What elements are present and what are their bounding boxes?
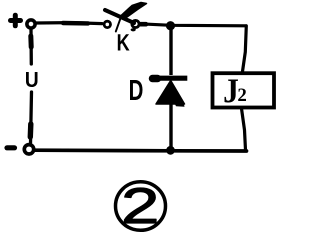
bottom wire [33, 148, 247, 153]
relay coil J2 box [213, 73, 275, 107]
node top-left [27, 20, 35, 28]
junction dot bottom [166, 146, 175, 155]
label J2 [225, 80, 239, 103]
node bottom-left [24, 145, 33, 154]
junction dot top [166, 21, 175, 30]
left rail upper segment [29, 29, 33, 64]
label U [26, 72, 38, 87]
wire node to switch [36, 23, 102, 24]
right rail upper [243, 26, 247, 72]
figure number digit 2 [125, 188, 157, 223]
figure number circle 2 [116, 182, 166, 231]
switch K [104, 3, 146, 32]
label K [118, 34, 130, 50]
right rail lower [242, 109, 246, 151]
left rail lower segment [31, 92, 32, 144]
minus terminal [7, 145, 15, 150]
wire switch to top-right corner [140, 24, 246, 26]
plus terminal [11, 15, 21, 26]
diode D [153, 27, 188, 148]
label D [130, 80, 143, 100]
